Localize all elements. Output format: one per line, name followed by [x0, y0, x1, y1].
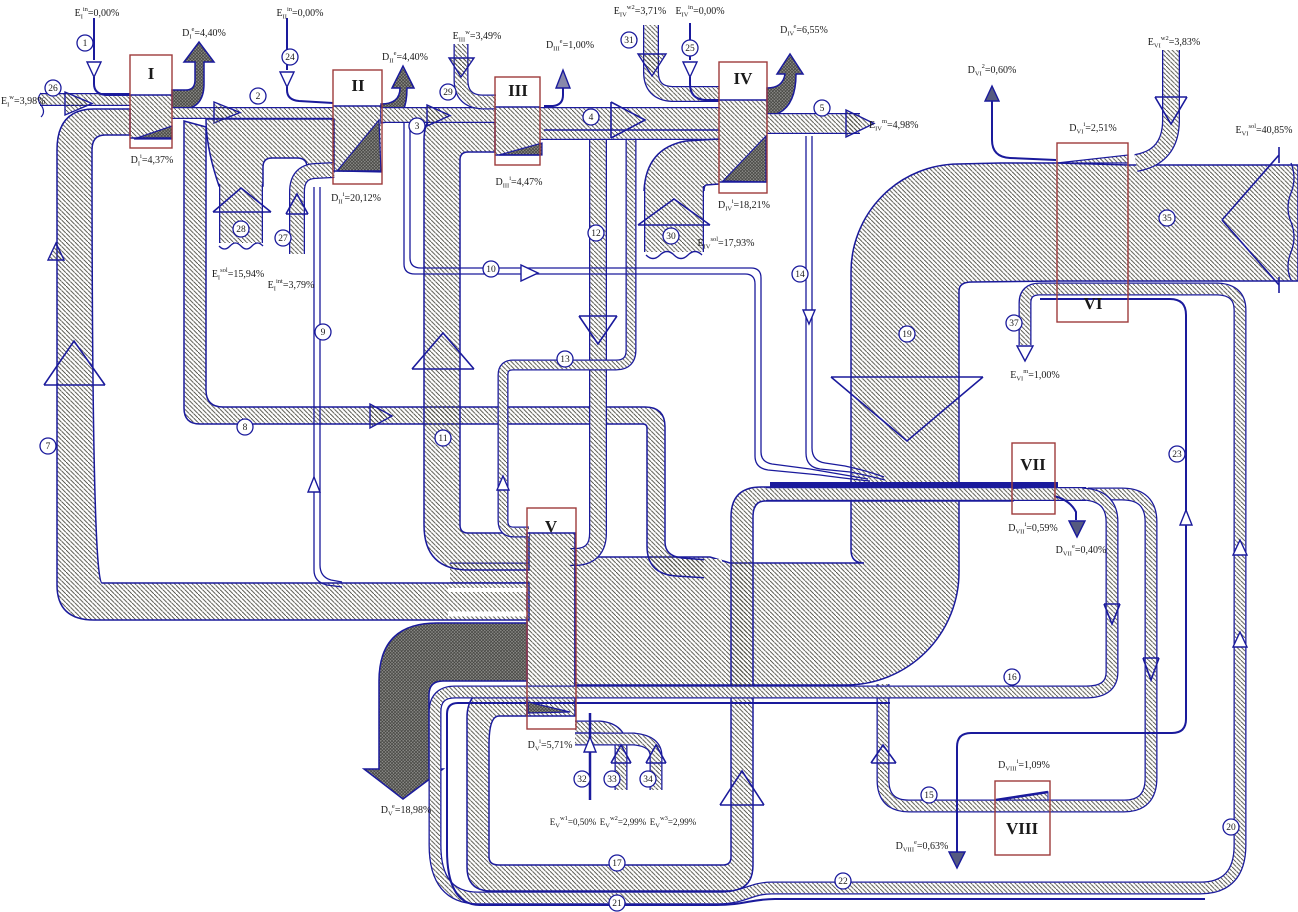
- flow 5 divider line: [544, 129, 719, 131]
- line D_VI^2 (wire): [992, 100, 1056, 160]
- node 14: [792, 266, 808, 282]
- svg-text:14: 14: [795, 270, 805, 280]
- destroyed exergy band D_II (wire): [381, 66, 414, 123]
- svg-text:DIIIe=1,00%: DIIIe=1,00%: [546, 38, 594, 53]
- svg-text:33: 33: [607, 775, 617, 785]
- unit III band: [495, 107, 540, 155]
- svg-text:13: 13: [560, 355, 570, 365]
- flow 32 line E_V^w1 (wire): [589, 713, 592, 800]
- svg-text:24: 24: [285, 53, 295, 63]
- wedge D_VIII in unit VIII: [996, 792, 1048, 800]
- wedge D_V^i in unit V: [528, 702, 570, 713]
- node 19: [899, 326, 915, 342]
- curve into unit IV (wire): [644, 139, 719, 191]
- arrow D_VII^e: [1069, 521, 1085, 537]
- wedge D_III in unit III: [499, 143, 542, 155]
- white gap between flows left of unit V: [448, 588, 527, 592]
- arrow 16 descender down: [1104, 604, 1120, 624]
- flow 31 band E_IV^w2 (wire): [651, 25, 719, 94]
- flow 30 band E_IV^sol (wire): [644, 186, 704, 252]
- svg-text:VII: VII: [1020, 455, 1046, 474]
- unit IV box: [719, 62, 767, 193]
- flow 10 line b (wire): [410, 123, 868, 479]
- flow 9 line (wire): [314, 187, 342, 587]
- flow 27 band E_I^int (wire): [297, 170, 334, 254]
- arrow flow 19 (down): [831, 377, 983, 441]
- unit V box: [527, 508, 576, 729]
- input line E_IV^in lower (wire): [690, 77, 719, 100]
- wedge D_VII in unit VII: [1013, 483, 1053, 489]
- svg-text:4: 4: [589, 113, 594, 123]
- arrow E_VI^sol input: [1222, 147, 1279, 293]
- node 4: [583, 109, 599, 125]
- flow 4 band (wire): [540, 107, 719, 140]
- torn edge E_I input: [39, 93, 44, 117]
- svg-text:32: 32: [577, 775, 587, 785]
- arrow flow 30: [638, 199, 710, 225]
- arrow flow 33: [611, 745, 631, 763]
- arrow 20 up1: [1233, 540, 1247, 555]
- wedge D_IV in unit IV: [723, 136, 766, 182]
- node 5: [814, 100, 830, 116]
- svg-text:22: 22: [838, 877, 848, 887]
- flow 3 band (wire): [381, 107, 495, 123]
- node 12: [588, 225, 604, 241]
- unit IV band: [719, 100, 767, 182]
- flow 29 band E_III^w (wire): [461, 44, 496, 102]
- flow 23 line loop (wire): [957, 299, 1186, 852]
- input line E_I^in (wire): [93, 18, 95, 60]
- unit II box: [333, 70, 382, 184]
- arrow flow 15 riser: [871, 745, 896, 763]
- unit VII box: [1012, 443, 1055, 514]
- wedge D_I in unit I: [134, 126, 172, 139]
- arrow flow 31: [638, 54, 666, 76]
- unit III box: [495, 77, 540, 165]
- node 28: [233, 221, 249, 237]
- node 8: [237, 419, 253, 435]
- svg-text:23: 23: [1172, 450, 1182, 460]
- svg-text:20: 20: [1226, 823, 1236, 833]
- svg-text:35: 35: [1162, 214, 1172, 224]
- node 20: [1223, 819, 1239, 835]
- node 34: [640, 771, 656, 787]
- arrow E_I input: [65, 92, 92, 115]
- svg-text:DIVe=6,55%: DIVe=6,55%: [780, 23, 828, 38]
- unit IV band top edge: [719, 99, 767, 101]
- flow 28 band E_I^sol (wire): [219, 184, 263, 243]
- destroyed exergy band D_IV (wire): [767, 54, 803, 118]
- unit II band: [333, 106, 381, 172]
- node 29: [440, 84, 456, 100]
- svg-text:30: 30: [666, 232, 676, 242]
- arrow flow 7 small: [48, 243, 64, 260]
- arrow flow 34: [646, 745, 666, 763]
- svg-text:EIsol=15,94%: EIsol=15,94%: [212, 267, 264, 282]
- unit V vertical band (wire): [527, 533, 575, 716]
- svg-text:29: 29: [443, 88, 453, 98]
- svg-text:1: 1: [83, 39, 88, 49]
- arrow flow 13: [497, 476, 509, 490]
- torn right edge of VI band: [1288, 163, 1294, 280]
- node 26: [45, 80, 61, 96]
- svg-text:10: 10: [486, 265, 496, 275]
- torn end flow 28: [219, 243, 263, 249]
- flow 33 band E_V^w2 (wire): [575, 727, 621, 790]
- arrow D_VI^2: [985, 86, 999, 101]
- node 27: [275, 230, 291, 246]
- unit II band bottom edge: [333, 170, 381, 172]
- node 11: [435, 430, 451, 446]
- arrow E_II^in: [280, 72, 294, 87]
- svg-text:34: 34: [643, 775, 653, 785]
- svg-text:17: 17: [612, 859, 622, 869]
- input band E_I^w (wire): [40, 93, 130, 106]
- node 3: [409, 118, 425, 134]
- arrow E_I^in: [87, 62, 101, 77]
- svg-text:5: 5: [820, 104, 825, 114]
- arrow flow 8: [370, 404, 392, 428]
- node 10: [483, 261, 499, 277]
- flow 10 line (wire): [404, 123, 870, 481]
- unit I box: [130, 55, 172, 148]
- svg-text:DIIe=4,40%: DIIe=4,40%: [382, 50, 428, 65]
- flow 34 band E_V^w3 (wire): [575, 739, 656, 790]
- flow 15 / unit VIII loop band (wire): [883, 494, 1151, 806]
- node 25: [682, 40, 698, 56]
- arrow 20 up2: [1233, 632, 1247, 647]
- node 15: [921, 787, 937, 803]
- unit IV band bottom edge: [719, 181, 767, 183]
- flow 16/22/20 outer loop band (wire): [435, 289, 1240, 898]
- node 7: [40, 438, 56, 454]
- arrow flow 2: [214, 102, 240, 123]
- arrow flow 17 riser: [720, 771, 764, 805]
- svg-text:IV: IV: [734, 69, 754, 88]
- flow 7 band (wire): [57, 109, 529, 620]
- arrow flow 3: [427, 105, 450, 126]
- flow 13 band (wire): [503, 140, 631, 532]
- svg-text:12: 12: [591, 229, 601, 239]
- unit II band top edge: [333, 105, 381, 107]
- main flow band through unit VI (wire): [575, 163, 1298, 685]
- flow 12 band (wire): [570, 140, 598, 557]
- node 24: [282, 49, 298, 65]
- destroyed exergy band D_V (wire): [364, 623, 527, 799]
- svg-text:9: 9: [321, 328, 326, 338]
- svg-text:VIII: VIII: [1006, 819, 1039, 838]
- svg-text:DIi=4,37%: DIi=4,37%: [131, 153, 174, 168]
- patch hiding merge seam of flow 8 into main band: [704, 559, 722, 580]
- svg-text:III: III: [508, 81, 528, 100]
- wedge D_II in unit II: [337, 120, 381, 172]
- unit I band: [130, 95, 172, 139]
- widening band into unit II and flow 28 (wire): [206, 119, 334, 186]
- svg-text:II: II: [351, 76, 365, 95]
- node 33: [604, 771, 620, 787]
- svg-text:I: I: [148, 64, 155, 83]
- svg-text:19: 19: [902, 330, 912, 340]
- arrow flow 10: [521, 265, 538, 281]
- arrow flow 14: [803, 310, 815, 324]
- svg-text:DIe=4,40%: DIe=4,40%: [182, 26, 226, 41]
- node 9: [315, 324, 331, 340]
- svg-text:31: 31: [624, 36, 634, 46]
- node 30: [663, 228, 679, 244]
- node 32: [574, 771, 590, 787]
- arrow flow 9: [308, 477, 320, 492]
- svg-text:7: 7: [46, 442, 51, 452]
- node 37: [1006, 315, 1022, 331]
- flow 2 band (wire): [172, 107, 333, 119]
- input line E_I^in lower (wire): [94, 77, 130, 95]
- svg-text:DIIIi=4,47%: DIIIi=4,47%: [495, 175, 542, 190]
- node 13: [557, 351, 573, 367]
- flow 11 band (wire): [424, 108, 529, 570]
- wire band into unit VII: [766, 487, 1086, 501]
- arrow flow 7 big: [44, 341, 105, 385]
- arrow flow 27: [286, 194, 308, 214]
- node 16: [1004, 669, 1020, 685]
- destroyed exergy band D_I (wire): [172, 42, 214, 110]
- flow 21 inner loop line (wire): [447, 703, 1205, 905]
- node 17: [609, 855, 625, 871]
- flow 14 line b (wire): [812, 136, 884, 477]
- svg-text:3: 3: [415, 122, 420, 132]
- node 21: [609, 895, 625, 911]
- node 23: [1169, 446, 1185, 462]
- svg-text:11: 11: [438, 434, 447, 444]
- node 22: [835, 873, 851, 889]
- svg-text:8: 8: [243, 423, 248, 433]
- arrow E_IV^in: [683, 62, 697, 77]
- node 1: [77, 35, 93, 51]
- unit VI box: [1057, 143, 1128, 322]
- svg-text:25: 25: [685, 44, 695, 54]
- unit III band bottom edge: [495, 154, 540, 156]
- svg-text:2: 2: [256, 92, 261, 102]
- svg-text:16: 16: [1007, 673, 1017, 683]
- arrow flow 5: [846, 110, 874, 137]
- svg-text:V: V: [545, 517, 558, 536]
- flow 9 line b (wire): [320, 187, 342, 582]
- input line E_IV^in (wire): [689, 23, 691, 60]
- flow 16in band E_VI^w2 (wire): [1136, 50, 1171, 163]
- wedge D_VI in unit VI: [1057, 155, 1128, 163]
- svg-text:DVi=5,71%: DVi=5,71%: [528, 738, 573, 753]
- arrow VIII loop down: [1143, 658, 1159, 680]
- flow 5 band E_IV^m (wire): [767, 113, 860, 134]
- svg-text:27: 27: [278, 234, 288, 244]
- arrow flow 11: [412, 333, 474, 369]
- arrow flow 4: [611, 102, 645, 138]
- flow 8 band (wire): [184, 121, 708, 578]
- output line D_III^e (wire): [544, 88, 563, 106]
- svg-text:DVIi=2,51%: DVIi=2,51%: [1069, 121, 1116, 136]
- arrow flow 37: [1017, 346, 1033, 361]
- node 2: [250, 88, 266, 104]
- arrow D_VIII^e: [949, 852, 965, 868]
- arrow flow 29: [449, 58, 474, 77]
- unit III band top edge: [495, 106, 540, 108]
- heavy line into unit VII: [770, 482, 1058, 487]
- flow 17 loop band to unit VII (wire): [467, 487, 1013, 891]
- unit I band bottom edge: [130, 137, 172, 139]
- arrow D_III^e: [556, 70, 570, 88]
- unit VIII box: [995, 781, 1050, 855]
- svg-text:26: 26: [48, 84, 58, 94]
- svg-text:28: 28: [236, 225, 246, 235]
- line D_VII^e (wire): [1054, 496, 1076, 520]
- svg-text:VI: VI: [1084, 294, 1103, 313]
- flow 14 line (wire): [806, 136, 885, 480]
- arrow flow 28: [213, 188, 271, 212]
- arrow flow 12 (down): [579, 316, 617, 344]
- unit I band top edge: [130, 94, 172, 96]
- input line E_II^in lower (wire): [287, 87, 333, 103]
- wire band into unit V left: [450, 563, 529, 584]
- svg-text:37: 37: [1009, 319, 1019, 329]
- arrow 23 line: [1180, 510, 1192, 525]
- node 31: [621, 32, 637, 48]
- input line E_II^in (wire): [286, 18, 288, 70]
- svg-text:21: 21: [612, 899, 622, 909]
- arrow E_VI^w2: [1155, 97, 1187, 124]
- node 35: [1159, 210, 1175, 226]
- torn end flow 30: [646, 252, 702, 259]
- svg-text:15: 15: [924, 791, 934, 801]
- arrow flow 32: [584, 737, 596, 752]
